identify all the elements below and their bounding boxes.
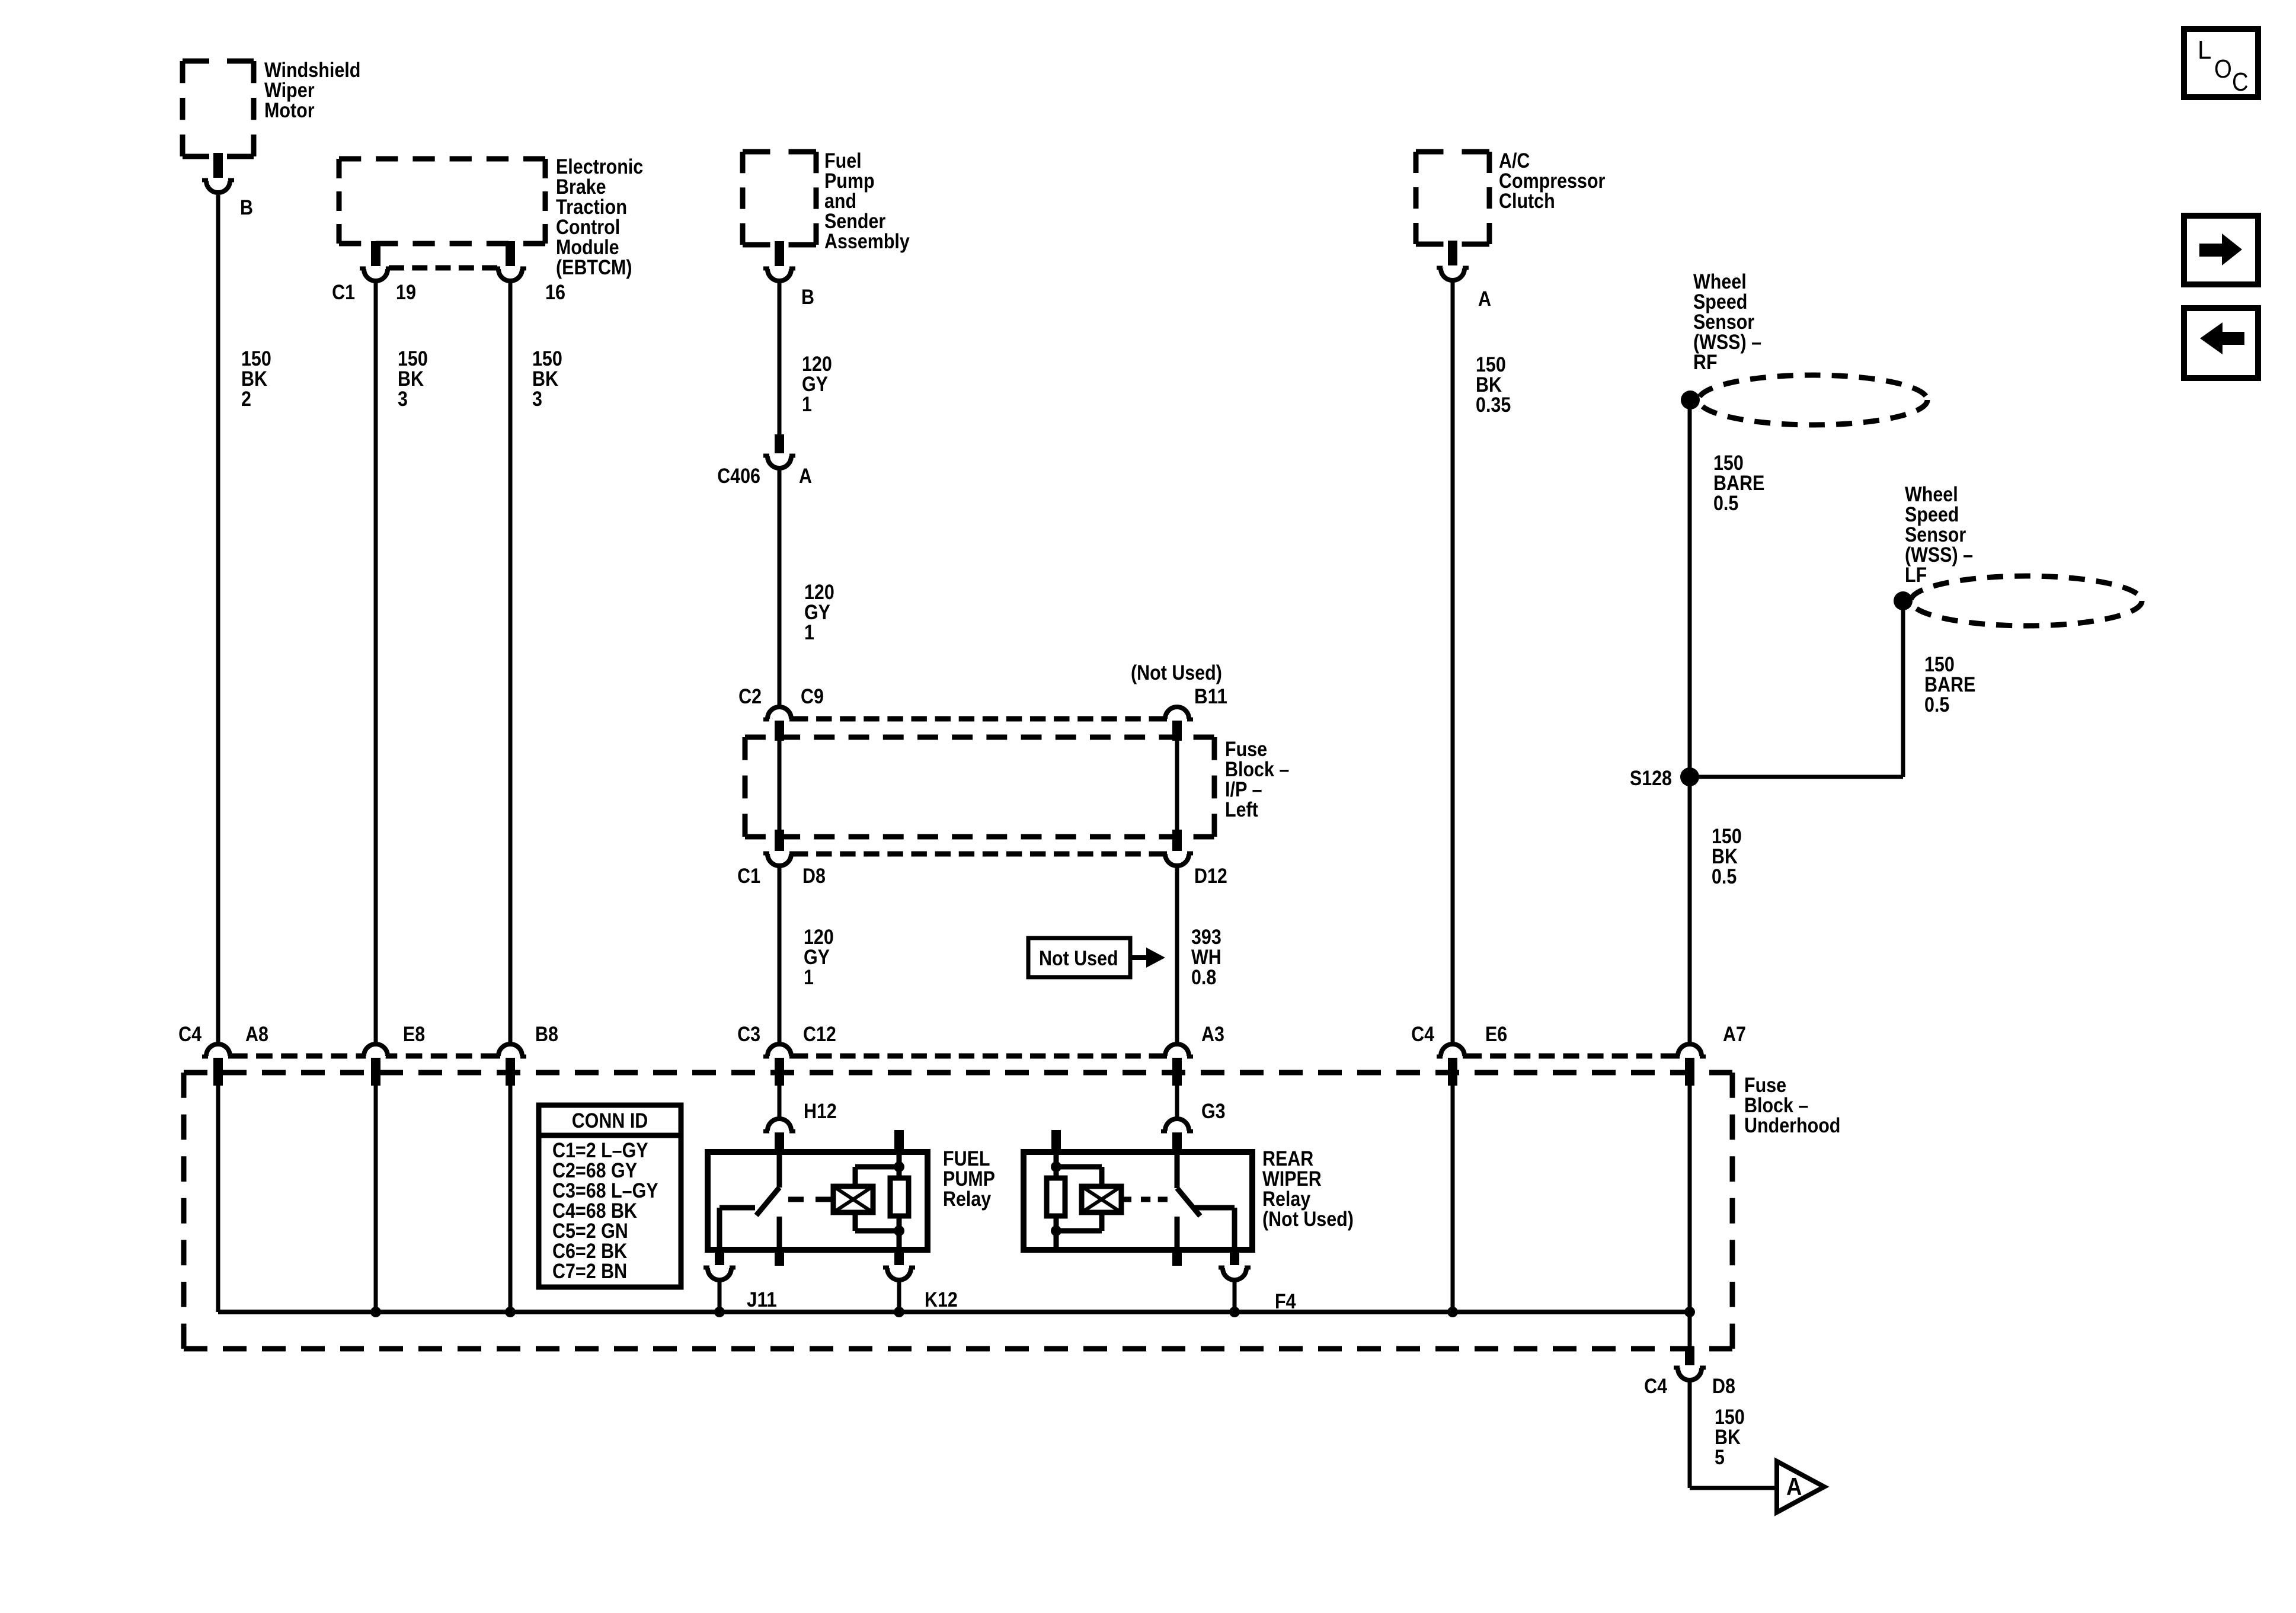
svg-text:19: 19 — [396, 281, 416, 304]
svg-text:1: 1 — [802, 393, 812, 416]
svg-text:B11: B11 — [1194, 685, 1227, 708]
svg-text:0.5: 0.5 — [1924, 693, 1949, 716]
svg-text:Motor: Motor — [264, 99, 315, 122]
svg-text:C4: C4 — [178, 1023, 202, 1046]
svg-text:16: 16 — [545, 281, 565, 304]
svg-text:S128: S128 — [1630, 767, 1672, 790]
svg-text:A8: A8 — [245, 1023, 268, 1046]
svg-text:D8: D8 — [802, 865, 826, 888]
svg-text:Relay: Relay — [943, 1188, 992, 1211]
svg-text:A: A — [1786, 1473, 1802, 1500]
svg-text:L: L — [2198, 36, 2211, 65]
svg-text:B8: B8 — [535, 1023, 558, 1046]
svg-text:K12: K12 — [925, 1288, 958, 1311]
svg-text:E6: E6 — [1485, 1023, 1507, 1046]
svg-text:C9: C9 — [801, 685, 824, 708]
svg-text:3: 3 — [532, 388, 542, 411]
svg-text:D8: D8 — [1712, 1375, 1735, 1398]
svg-text:C12: C12 — [803, 1023, 836, 1046]
svg-text:C4: C4 — [1644, 1375, 1667, 1398]
svg-text:C1: C1 — [332, 281, 355, 304]
svg-text:Left: Left — [1225, 798, 1258, 821]
svg-text:J11: J11 — [747, 1288, 777, 1311]
svg-text:CONN ID: CONN ID — [572, 1109, 648, 1132]
svg-text:O: O — [2214, 55, 2232, 84]
svg-text:G3: G3 — [1201, 1100, 1226, 1123]
svg-text:2: 2 — [241, 388, 251, 411]
svg-text:(EBTCM): (EBTCM) — [556, 256, 632, 279]
svg-text:A: A — [1478, 287, 1491, 311]
svg-text:3: 3 — [398, 388, 408, 411]
svg-text:C2: C2 — [738, 685, 762, 708]
svg-text:LF: LF — [1905, 564, 1927, 587]
svg-text:B: B — [801, 286, 814, 309]
svg-text:B: B — [240, 196, 253, 219]
svg-text:Assembly: Assembly — [824, 230, 910, 253]
svg-text:C3: C3 — [737, 1023, 760, 1046]
svg-text:5: 5 — [1715, 1446, 1725, 1469]
svg-text:A3: A3 — [1201, 1023, 1224, 1046]
svg-text:1: 1 — [804, 621, 814, 644]
svg-text:C4: C4 — [1411, 1023, 1434, 1046]
svg-text:Clutch: Clutch — [1499, 190, 1555, 213]
svg-text:0.5: 0.5 — [1712, 865, 1737, 888]
svg-text:Not Used: Not Used — [1039, 947, 1118, 970]
svg-text:Underhood: Underhood — [1744, 1114, 1840, 1137]
svg-text:(Not Used): (Not Used) — [1262, 1208, 1354, 1231]
svg-text:0.5: 0.5 — [1713, 492, 1738, 515]
svg-text:C406: C406 — [717, 465, 760, 488]
svg-text:H12: H12 — [804, 1100, 837, 1123]
svg-text:A: A — [799, 465, 812, 488]
svg-text:RF: RF — [1693, 351, 1718, 374]
svg-text:(Not Used): (Not Used) — [1131, 661, 1222, 684]
svg-text:C: C — [2232, 68, 2249, 97]
svg-text:0.8: 0.8 — [1191, 966, 1216, 989]
svg-text:F4: F4 — [1275, 1290, 1296, 1313]
svg-text:A7: A7 — [1723, 1023, 1746, 1046]
svg-text:C1: C1 — [737, 865, 760, 888]
svg-text:D12: D12 — [1194, 865, 1227, 888]
svg-text:E8: E8 — [403, 1023, 425, 1046]
svg-text:1: 1 — [804, 966, 814, 989]
svg-text:C7=2 BN: C7=2 BN — [552, 1260, 627, 1283]
svg-text:0.35: 0.35 — [1476, 393, 1511, 417]
